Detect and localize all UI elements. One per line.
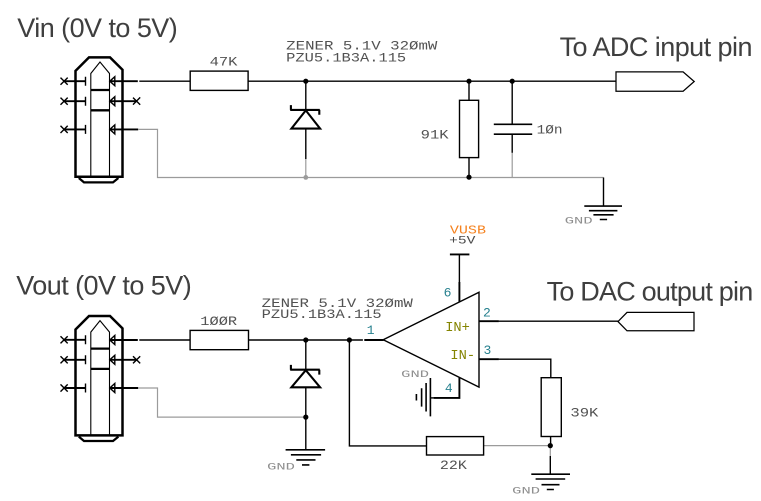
svg-text:22K: 22K: [440, 459, 468, 473]
svg-text:1: 1: [367, 323, 375, 338]
svg-text:IN-: IN-: [450, 348, 475, 364]
svg-text:39K: 39K: [570, 406, 599, 420]
svg-text:GND: GND: [512, 485, 540, 497]
svg-text:PZU5.1B3A.115: PZU5.1B3A.115: [286, 52, 406, 66]
svg-text:Vout (0V to 5V): Vout (0V to 5V): [16, 270, 191, 300]
svg-text:To ADC input pin: To ADC input pin: [560, 32, 752, 62]
svg-text:3: 3: [484, 343, 492, 358]
svg-text:PZU5.1B3A.115: PZU5.1B3A.115: [262, 308, 382, 322]
svg-text:GND: GND: [267, 461, 295, 473]
svg-text:47K: 47K: [210, 56, 239, 70]
svg-text:IN+: IN+: [445, 320, 470, 336]
svg-text:1Øn: 1Øn: [537, 123, 563, 137]
svg-text:1ØØR: 1ØØR: [200, 315, 237, 329]
svg-text:To DAC output pin: To DAC output pin: [547, 277, 753, 307]
svg-text:91K: 91K: [421, 128, 450, 142]
svg-text:GND: GND: [565, 216, 593, 228]
svg-text:6: 6: [444, 285, 452, 300]
svg-text:2: 2: [483, 305, 491, 320]
svg-text:4: 4: [445, 381, 453, 396]
svg-text:+5V: +5V: [449, 235, 476, 247]
svg-text:Vin (0V to 5V): Vin (0V to 5V): [17, 13, 177, 43]
svg-text:GND: GND: [401, 369, 429, 381]
